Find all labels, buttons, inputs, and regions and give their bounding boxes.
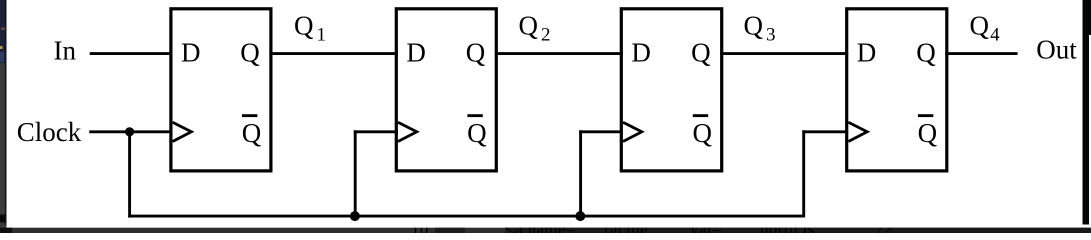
wire FF4.Q to Out	[945, 52, 1017, 55]
svg-text:Q: Q	[918, 118, 938, 148]
svg-text:D: D	[631, 38, 651, 68]
svg-text:2: 2	[541, 25, 551, 46]
junction dot bus-U2	[350, 211, 360, 221]
D flip-flop U1 box	[171, 9, 271, 171]
D flip-flop U3 box	[621, 9, 721, 171]
svg-text:Q: Q	[467, 118, 487, 148]
svg-text:Q: Q	[916, 38, 936, 68]
svg-text:Out: Out	[1036, 35, 1077, 65]
wire FF2.Q to FF3.D	[495, 52, 623, 55]
D flip-flop U4 box	[847, 9, 947, 171]
clock riser to U3	[579, 130, 582, 216]
svg-text:Q: Q	[970, 11, 990, 41]
left window-edge strip	[0, 0, 7, 63]
svg-text:Q: Q	[242, 118, 262, 148]
right window-edge bar	[1083, 0, 1090, 225]
wire Clock to FF1 clk	[89, 130, 172, 133]
svg-text:Q: Q	[466, 38, 486, 68]
D flip-flop U2 box	[396, 9, 496, 171]
wire In to FF1.D	[90, 52, 173, 55]
U2 clock edge triangle	[398, 122, 417, 141]
junction dot bus-U3	[575, 211, 585, 221]
svg-text:3: 3	[766, 25, 776, 46]
U3 clock edge triangle	[623, 122, 642, 141]
svg-text:4: 4	[990, 25, 1000, 46]
U1 clock edge triangle	[173, 122, 192, 141]
clock bus wire	[128, 130, 131, 218]
svg-text:D: D	[406, 38, 426, 68]
wire FF3.Q to FF4.D	[720, 52, 848, 55]
svg-text:D: D	[857, 38, 877, 68]
svg-text:In: In	[54, 36, 77, 66]
clock riser to U4	[802, 130, 805, 217]
svg-text:D: D	[181, 38, 201, 68]
U4 clock edge triangle	[848, 122, 867, 141]
clock riser to U2	[354, 130, 357, 216]
wire FF1.Q to FF2.D	[269, 52, 397, 55]
bottom window-edge bar	[0, 228, 1091, 233]
svg-text:Q: Q	[294, 11, 314, 41]
svg-text:Q: Q	[519, 11, 539, 41]
svg-text:Clock: Clock	[17, 117, 82, 147]
svg-text:Q: Q	[691, 38, 711, 68]
svg-text:Q: Q	[240, 38, 260, 68]
svg-text:Q: Q	[693, 118, 713, 148]
svg-text:Q: Q	[744, 11, 764, 41]
svg-text:1: 1	[317, 25, 327, 46]
junction dot clock node	[125, 127, 134, 136]
